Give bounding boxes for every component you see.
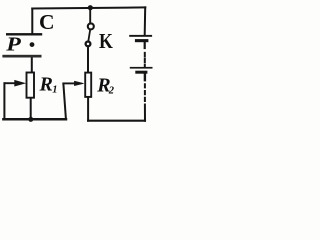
wire capacitor bottom lead to R1 — [31, 57, 33, 72]
rheostat R2 box — [85, 73, 91, 97]
svg-text:1: 1 — [52, 85, 57, 96]
switch K blade — [88, 30, 90, 42]
wire battery minus stub — [144, 74, 146, 81]
battery cell1 negative plate — [135, 39, 149, 42]
wire capacitor top lead — [31, 9, 33, 34]
wire bottom left — [3, 118, 66, 121]
battery cell2 positive plate — [130, 67, 153, 69]
svg-text:R: R — [39, 73, 53, 95]
label K — [99, 31, 113, 54]
rheostat R2 slider arrow — [62, 81, 83, 85]
switch K bottom contact circle — [86, 42, 91, 47]
wire battery top lead — [144, 7, 147, 35]
label P — [5, 34, 21, 56]
wire stub below cell1 — [144, 42, 146, 48]
resistor R1 box — [27, 73, 35, 98]
battery cell2 negative plate — [135, 71, 147, 74]
wire R2 bottom lead — [87, 98, 89, 121]
svg-text:K: K — [99, 31, 113, 54]
wire dashed below battery — [144, 84, 146, 101]
wire left vertical — [3, 83, 5, 119]
node junction dot at switch branch — [88, 5, 93, 10]
wire switch to R2 top lead — [87, 46, 89, 72]
node point P dot — [30, 42, 35, 47]
capacitor C top plate — [6, 33, 42, 35]
switch K lead from top node — [89, 8, 91, 24]
wire dashed between cells — [144, 53, 146, 67]
wire R2 slider riser — [63, 84, 66, 119]
wire top horizontal — [32, 7, 145, 8]
node junction dot at R1 bottom — [28, 117, 33, 122]
wire battery bottom solid part — [144, 105, 146, 121]
svg-text:C: C — [39, 10, 55, 34]
switch K top contact circle — [88, 23, 94, 29]
battery cell1 positive plate — [129, 35, 152, 37]
resistor R1 slider arrow — [4, 80, 25, 86]
wire R1 bottom lead — [30, 99, 32, 120]
svg-text:2: 2 — [108, 86, 115, 97]
wire bottom right — [88, 120, 145, 122]
capacitor C bottom plate — [2, 55, 41, 58]
svg-text:P: P — [5, 34, 21, 56]
